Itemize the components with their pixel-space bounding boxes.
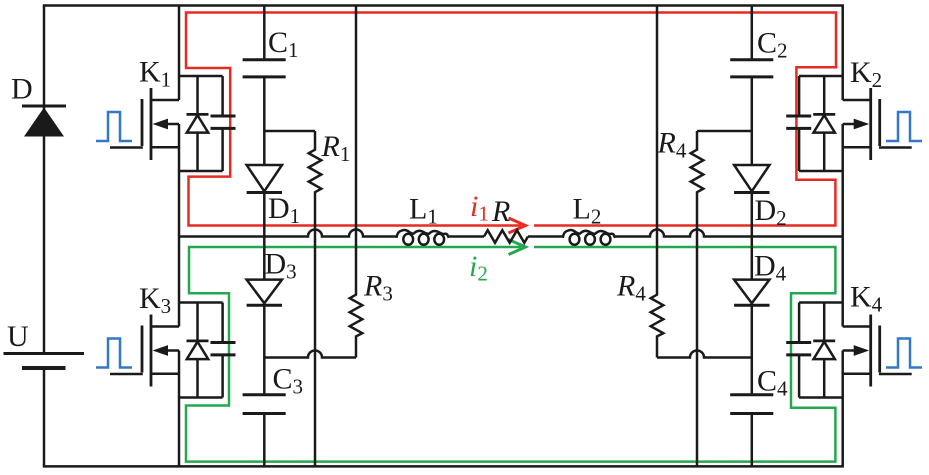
wire: junction from C2/D2 node to R4 (top) xyxy=(697,130,752,133)
mosfet K4 arrow xyxy=(843,349,858,352)
svg-text:D2: D2 xyxy=(755,194,787,230)
svg-text:D4: D4 xyxy=(754,250,787,286)
gate pulse of K4 (blue) xyxy=(886,339,922,368)
mosfet K1 gate bar xyxy=(141,99,144,146)
mosfet K1 arrow xyxy=(164,123,179,126)
inductor L1 (coil on middle rail) xyxy=(397,230,449,245)
snubber capacitor of K2 xyxy=(798,76,801,171)
arrowhead of i1 (red) xyxy=(509,218,526,233)
resistor R1 (zigzag, branch down to bottom rail) xyxy=(309,131,322,466)
wire: C2/D2 string x=751.8 xyxy=(751,6,754,467)
mosfet K3 gate bar xyxy=(141,326,144,373)
current loop i2 (green) xyxy=(186,247,835,462)
capacitor C4 xyxy=(730,395,773,414)
transistor K1 (MOSFET cell with body diode + snubber cap + gate pulse) xyxy=(96,76,236,171)
capacitor C2 xyxy=(730,60,773,77)
gate pulse of K1 (blue) xyxy=(96,112,132,141)
parallel-combo bus bars of K1 xyxy=(179,76,223,171)
diode D1 (outline, pointing down) xyxy=(247,165,282,193)
svg-text:C1: C1 xyxy=(268,26,299,62)
wire: junction from C1/D1 node to R1 xyxy=(264,130,315,133)
gate pulse of K2 (blue) xyxy=(886,112,922,141)
svg-text:R3: R3 xyxy=(363,270,393,306)
mosfet K1 gate lead wire xyxy=(110,146,143,149)
resistor R (zigzag on middle rail) xyxy=(484,230,528,243)
svg-text:D1: D1 xyxy=(268,192,300,228)
svg-text:K4: K4 xyxy=(850,281,883,317)
svg-text:L2: L2 xyxy=(573,193,602,229)
diode D2 (outline, pointing down) xyxy=(734,165,769,193)
wire: R4-bottom to D4/C4 node (hop over R4-top branch) xyxy=(657,351,752,358)
mosfet K2 drain lead wire xyxy=(843,99,871,102)
body diode of K4 xyxy=(823,303,826,398)
transistor K4 (MOSFET cell, mirrored, lower right) xyxy=(786,303,922,398)
arrowhead of i2 (green) xyxy=(509,240,526,255)
mosfet K1 source lead wire xyxy=(151,146,179,149)
svg-text:D: D xyxy=(11,73,33,106)
wire: C1/D1 string x=264.3 xyxy=(263,6,266,467)
mosfet K3 body bar xyxy=(150,315,153,387)
battery U (voltage source) xyxy=(4,354,85,369)
diode D3 (outline, pointing down) xyxy=(247,280,282,306)
svg-text:R4: R4 xyxy=(657,127,687,163)
capacitor C3 xyxy=(243,395,286,414)
svg-text:K3: K3 xyxy=(139,282,171,318)
diode D (filled, on left branch) xyxy=(22,106,66,137)
mosfet K3 source lead wire xyxy=(151,373,179,376)
svg-text:L1: L1 xyxy=(409,193,438,229)
current loop i1 (red) xyxy=(186,13,836,226)
wire: top rail xyxy=(43,4,844,7)
parallel-combo bus bars of K3 xyxy=(179,303,223,398)
transistor K2 (MOSFET cell, mirrored, upper right) xyxy=(786,76,922,171)
snubber capacitor of K3 xyxy=(221,303,224,398)
mosfet K2 gate lead wire xyxy=(879,146,912,149)
mosfet K4 source lead wire xyxy=(843,373,871,376)
wire: right bridge leg x=842.7 xyxy=(841,6,844,467)
inductor L2 (coil on middle rail) xyxy=(563,230,615,245)
mosfet K1 drain lead wire xyxy=(151,99,179,102)
resistor R4 top (zigzag, branch down to bottom rail) xyxy=(691,131,704,466)
parallel-combo bus bars of K4 xyxy=(799,303,843,398)
svg-text:K2: K2 xyxy=(850,56,882,92)
svg-text:i1: i1 xyxy=(470,190,489,226)
mosfet K2 source lead wire xyxy=(843,146,871,149)
mosfet K3 arrow xyxy=(164,349,179,352)
svg-text:R1: R1 xyxy=(321,130,351,166)
svg-text:K1: K1 xyxy=(139,56,171,92)
mosfet K2 body bar xyxy=(869,88,872,160)
transistor K3 (MOSFET cell, lower left) xyxy=(96,303,236,398)
mosfet K4 body bar xyxy=(869,315,872,387)
svg-text:R: R xyxy=(491,195,510,228)
svg-text:R4: R4 xyxy=(616,270,646,306)
wire: left bridge leg x=179 xyxy=(178,6,181,467)
snubber capacitor of K1 xyxy=(221,76,224,171)
wire: left outer vertical (source branch) xyxy=(43,6,46,467)
mosfet K2 arrow xyxy=(843,123,858,126)
mosfet K4 drain lead wire xyxy=(843,325,871,328)
svg-text:i2: i2 xyxy=(469,250,488,286)
mosfet K3 gate lead wire xyxy=(110,373,143,376)
body diode of K2 xyxy=(823,76,826,171)
snubber capacitor of K4 xyxy=(798,303,801,398)
svg-text:U: U xyxy=(7,320,29,353)
parallel-combo bus bars of K2 xyxy=(799,76,843,171)
mosfet K4 gate lead wire xyxy=(879,373,912,376)
wire: middle rail with hops over R1/R3/R4 branches xyxy=(179,230,843,237)
mosfet K4 gate bar xyxy=(878,326,881,373)
body diode of K1 xyxy=(196,76,199,171)
wire: R3 bottom to D3/C3 node (hop over R1 branch) xyxy=(264,351,356,358)
svg-text:D3: D3 xyxy=(265,248,297,284)
svg-text:C3: C3 xyxy=(273,363,304,399)
mosfet K2 gate bar xyxy=(878,99,881,146)
body diode of K3 xyxy=(196,303,199,398)
resistor R3 (zigzag, branch from top rail) xyxy=(350,6,363,358)
capacitor C1 xyxy=(243,60,286,77)
svg-text:C4: C4 xyxy=(757,365,788,401)
resistor R4 bottom (zigzag, branch from top rail) xyxy=(651,6,664,358)
svg-text:C2: C2 xyxy=(757,27,788,63)
mosfet K3 drain lead wire xyxy=(151,325,179,328)
wire: bottom rail xyxy=(43,465,844,468)
gate pulse of K3 (blue) xyxy=(96,339,132,368)
diode D4 (outline, pointing down) xyxy=(734,280,769,306)
mosfet K1 body bar xyxy=(150,88,153,160)
